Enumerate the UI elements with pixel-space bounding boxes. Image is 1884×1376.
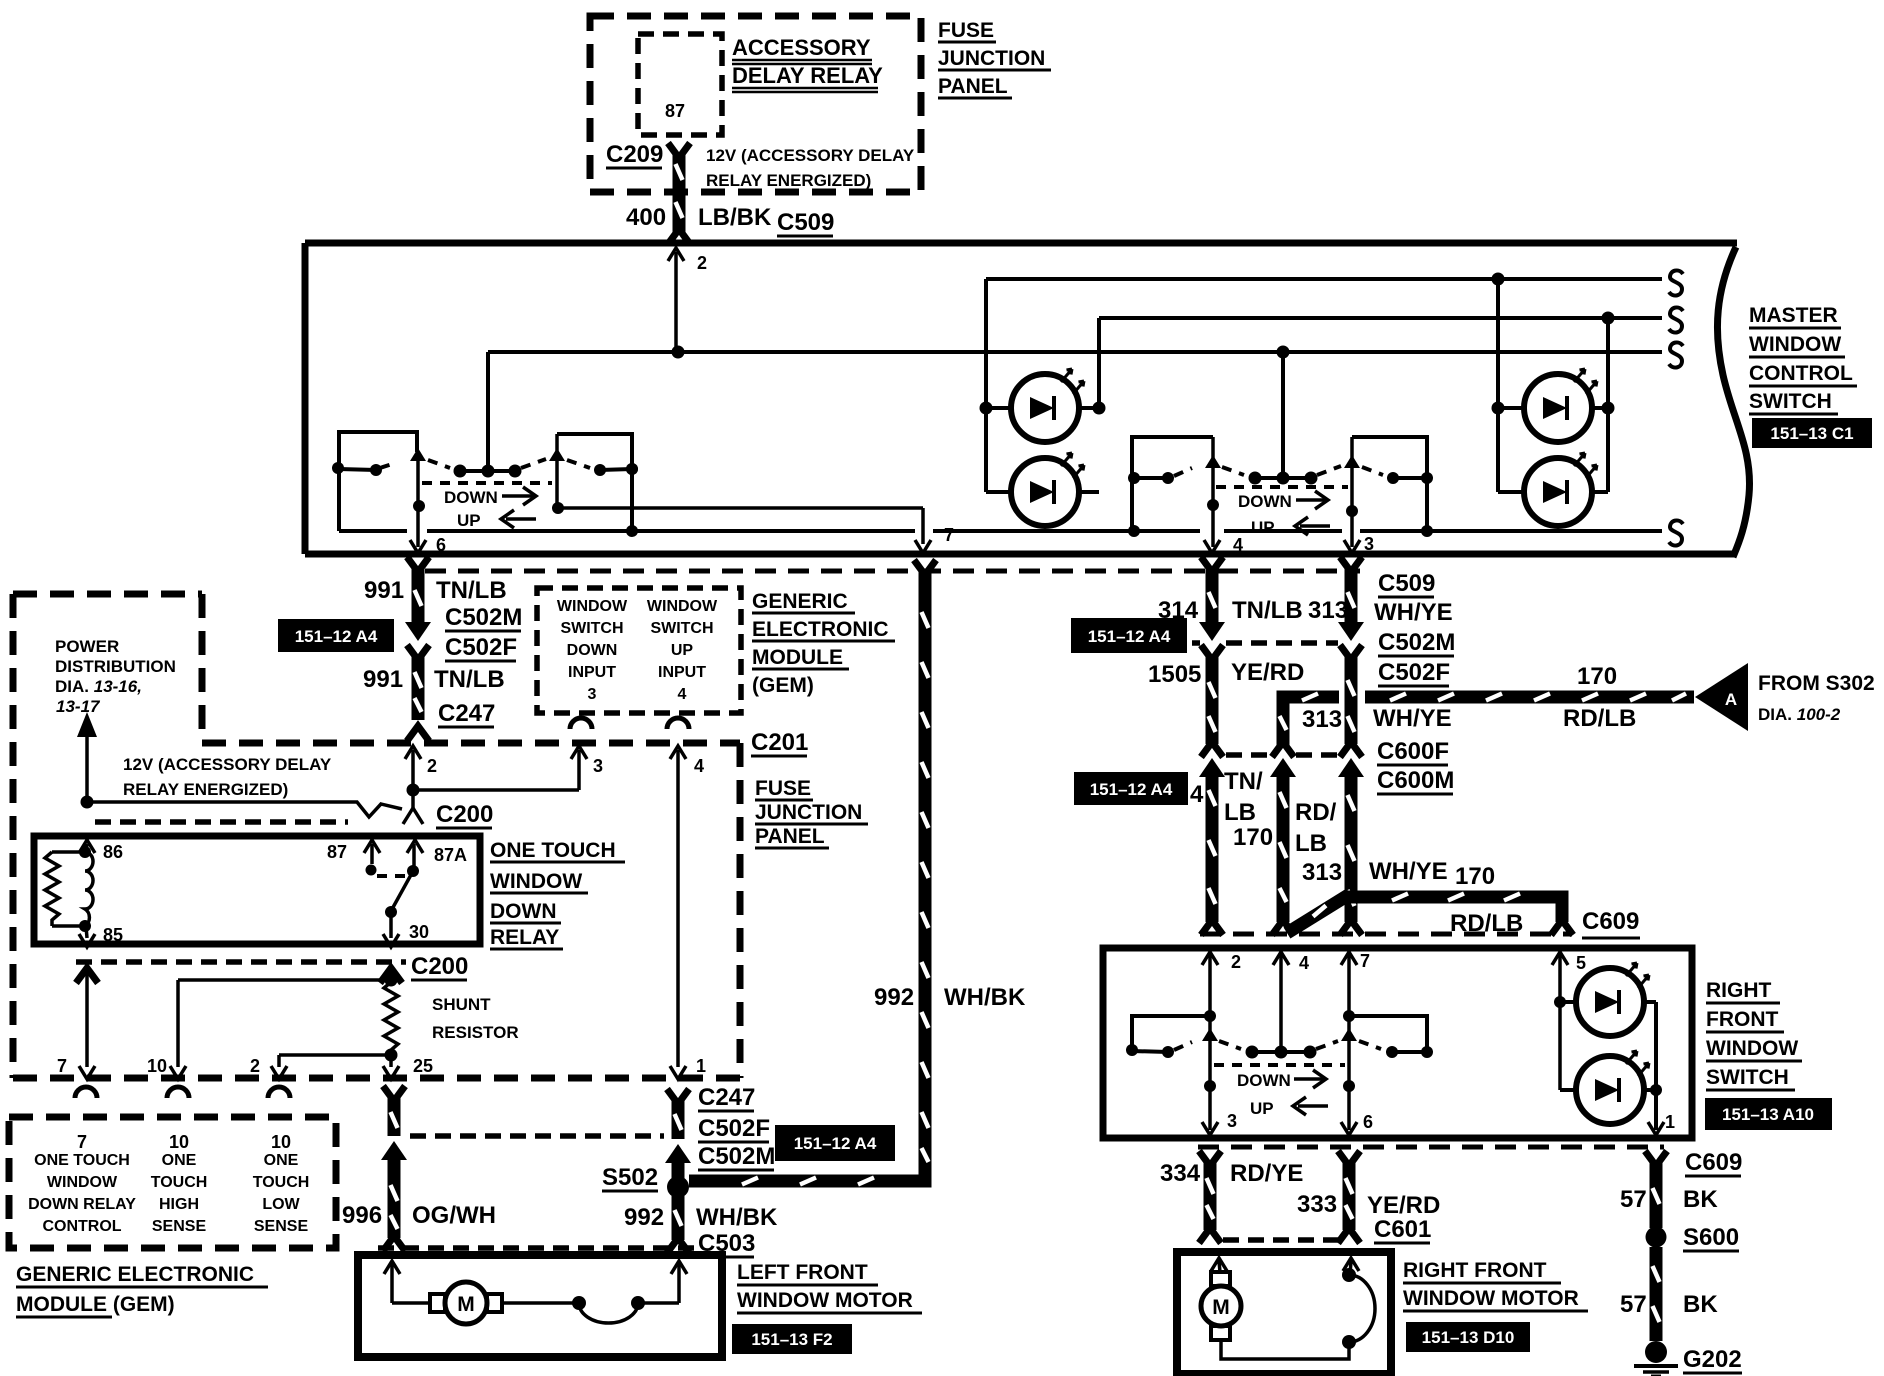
svg-text:LEFT FRONT: LEFT FRONT: [737, 1261, 868, 1284]
svg-text:LOW: LOW: [262, 1196, 300, 1213]
wire fuse panel pin4 long run: [670, 746, 686, 1079]
svg-text:GENERIC: GENERIC: [752, 590, 848, 613]
svg-text:3: 3: [1364, 534, 1374, 554]
svg-text:13-17: 13-17: [56, 697, 101, 716]
svg-text:151–13 D10: 151–13 D10: [1422, 1328, 1515, 1347]
svg-text:WH/BK: WH/BK: [944, 984, 1026, 1011]
svg-text:87: 87: [327, 842, 347, 862]
svg-text:PANEL: PANEL: [938, 75, 1008, 98]
lamp RF upper (master): [1524, 369, 1597, 442]
wire 313 WH/YE (w2 mid): [1340, 645, 1362, 757]
wire fuse panel link pin2 to pin3: [413, 746, 587, 790]
LF rocker right rect: [557, 434, 632, 531]
svg-text:DOWN: DOWN: [490, 900, 557, 923]
svg-text:C609: C609: [1582, 908, 1639, 935]
label DOWN arrow RF (master): [1238, 491, 1328, 511]
svg-text:C509: C509: [1378, 570, 1435, 597]
svg-text:10: 10: [147, 1056, 167, 1076]
svg-text:3: 3: [588, 686, 597, 703]
label RIGHT FRONT WINDOW SWITCH: [1706, 979, 1802, 1090]
svg-text:WINDOW: WINDOW: [1706, 1037, 1798, 1060]
white slash 57 BK upper: [1653, 1188, 1660, 1204]
svg-text:C201: C201: [751, 729, 808, 756]
white slashes on C209/400 stubs: [676, 164, 683, 218]
label 333 YE/RD C601: [1297, 1191, 1440, 1243]
svg-text:SENSE: SENSE: [254, 1218, 309, 1235]
label FUSE JUNCTION PANEL (top): [938, 19, 1051, 98]
svg-text:RIGHT FRONT: RIGHT FRONT: [1403, 1259, 1547, 1282]
svg-text:992: 992: [874, 984, 914, 1011]
svg-text:C502F: C502F: [698, 1115, 770, 1142]
svg-text:SWITCH: SWITCH: [1749, 390, 1832, 413]
label 57 BK upper: [1620, 1186, 1718, 1213]
svg-text:A: A: [1725, 690, 1737, 709]
svg-text:151–13 A10: 151–13 A10: [1722, 1105, 1814, 1124]
svg-text:2: 2: [250, 1056, 260, 1076]
wire 314 TN/LB (w1 upper): [1199, 557, 1225, 641]
connector cups window switch pins 3 4: [570, 718, 689, 729]
svg-text:30: 30: [409, 922, 429, 942]
white slashes wire2: [1348, 592, 1355, 906]
svg-text:87: 87: [665, 101, 685, 121]
svg-text:WH/YE: WH/YE: [1373, 705, 1452, 732]
lamp RF switch upper: [1576, 963, 1649, 1036]
svg-text:7: 7: [57, 1056, 67, 1076]
svg-text:170: 170: [1233, 824, 1273, 851]
svg-text:ONE TOUCH: ONE TOUCH: [490, 839, 616, 862]
svg-text:1: 1: [1665, 1112, 1675, 1132]
white slashes wire 992: [742, 612, 929, 1185]
wire rail 4 (bottom bus): [339, 529, 1662, 533]
white slashes wire 991: [415, 590, 422, 712]
RF switch contacts left: [1126, 1042, 1192, 1058]
svg-text:WH/YE: WH/YE: [1374, 599, 1453, 626]
LF motor pin arrow left: [384, 1261, 431, 1303]
svg-text:WINDOW MOTOR: WINDOW MOTOR: [737, 1289, 913, 1312]
RF motor pin arrow right: [1343, 1258, 1359, 1275]
label RD/LB 313: [1295, 799, 1342, 886]
relay coil ties: [52, 846, 91, 932]
LF rocker mechanical link dashes: [422, 481, 552, 485]
label 12V accessory delay relay energized (top): [706, 146, 915, 190]
svg-text:ONE: ONE: [264, 1152, 299, 1169]
white slash wire 333: [1346, 1178, 1353, 1219]
svg-text:JUNCTION: JUNCTION: [938, 47, 1045, 70]
svg-text:UP: UP: [1251, 518, 1275, 537]
svg-text:170: 170: [1455, 863, 1495, 890]
svg-text:DOWN: DOWN: [1237, 1071, 1291, 1090]
connector line C200 dashed (below relay): [76, 959, 406, 965]
wire 334 RD/YE: [1199, 1151, 1221, 1243]
label WINDOW SWITCH DOWN INPUT 3: [557, 598, 628, 703]
lamp RF switch lower: [1576, 1051, 1649, 1124]
wire 12V accessory delay feed: [87, 802, 402, 817]
svg-text:OG/WH: OG/WH: [412, 1202, 496, 1229]
svg-text:TN/: TN/: [1224, 768, 1263, 795]
svg-text:RELAY ENERGIZED): RELAY ENERGIZED): [706, 171, 871, 190]
label FROM S302 DIA 100-2: [1758, 672, 1875, 724]
white slash wire 334: [1207, 1178, 1214, 1219]
connector line C502 dashed (right): [1192, 640, 1338, 646]
svg-text:3: 3: [1227, 1111, 1237, 1131]
svg-text:C600F: C600F: [1377, 738, 1449, 765]
svg-text:YE/RD: YE/RD: [1367, 1192, 1440, 1219]
wire 992 WH/BK (master pin 7 to S502): [689, 560, 936, 1181]
wire tap to GEM pin 2: [271, 1055, 391, 1079]
power distribution arrow: [77, 712, 97, 802]
label GEM pin 10 one touch low sense: [253, 1132, 310, 1235]
labels RF switch pins bottom: [1227, 1111, 1675, 1132]
RF switch pin 5 lamp feed: [1552, 952, 1656, 1090]
wire RD/LB 313 (w3 lower): [1270, 742, 1296, 935]
motor M right front: [1201, 1272, 1241, 1340]
svg-text:DOWN: DOWN: [567, 642, 618, 659]
label 991 TN/LB lower: [363, 666, 505, 693]
wire rail A (lamp feed top): [986, 277, 1662, 281]
tag 151-13 A10: [1705, 1098, 1832, 1130]
svg-text:12V (ACCESSORY DELAY: 12V (ACCESSORY DELAY: [706, 146, 915, 165]
svg-text:151–12 A4: 151–12 A4: [1088, 627, 1171, 646]
wire RF motor arc: [1342, 1268, 1375, 1349]
connector line C609 dashed (pin 5): [1200, 932, 1572, 937]
RF rocker (master) pivot lever pin 4: [1204, 437, 1221, 553]
svg-text:SWITCH: SWITCH: [560, 620, 623, 637]
wire 996 OG/WH: [381, 1086, 407, 1251]
node rail3 / RF rocker tap: [1277, 346, 1290, 359]
generic electronic module (GEM) upper dashed box: [13, 594, 202, 1078]
label 313 WH/YE (mid): [1302, 705, 1452, 733]
svg-text:FUSE: FUSE: [755, 777, 811, 800]
label ACCESSORY DELAY RELAY: [732, 35, 883, 92]
svg-text:TN/LB: TN/LB: [1232, 597, 1303, 624]
label C200 (12V line): [436, 801, 493, 828]
svg-text:DOWN: DOWN: [444, 488, 498, 507]
svg-text:PANEL: PANEL: [755, 825, 825, 848]
label 996 OG/WH: [342, 1202, 496, 1229]
wire LF motor to brush arc: [502, 1296, 679, 1323]
connector line C509 dashed below master switch: [425, 569, 1360, 574]
svg-text:5: 5: [1576, 953, 1586, 973]
svg-text:WINDOW: WINDOW: [47, 1174, 118, 1191]
svg-text:SWITCH: SWITCH: [1706, 1066, 1789, 1089]
svg-text:57: 57: [1620, 1291, 1647, 1318]
RF switch center contacts: [1219, 1041, 1338, 1059]
svg-text:RD/YE: RD/YE: [1230, 1160, 1303, 1187]
RF switch pin 4 wire: [1273, 952, 1289, 1050]
svg-text:DELAY RELAY: DELAY RELAY: [732, 63, 883, 88]
svg-text:400: 400: [626, 204, 666, 231]
label POWER DISTRIBUTION: [55, 637, 176, 716]
label SHUNT RESISTOR: [432, 995, 519, 1042]
svg-text:WINDOW: WINDOW: [557, 598, 628, 615]
wire continuation S symbols: [1669, 270, 1683, 545]
svg-text:57: 57: [1620, 1186, 1647, 1213]
node 12V junction: [81, 796, 94, 809]
svg-text:151–13 C1: 151–13 C1: [1770, 424, 1853, 443]
svg-text:ELECTRONIC: ELECTRONIC: [752, 618, 889, 641]
svg-text:2: 2: [427, 756, 437, 776]
wire pin2 from C509 into master switch: [668, 248, 684, 352]
label WH/YE 170 (lower): [1369, 858, 1495, 890]
wire 992 WH/BK to C503: [667, 1196, 689, 1253]
svg-text:C600M: C600M: [1377, 767, 1454, 794]
label 334 RD/YE: [1160, 1160, 1303, 1187]
label G202: [1683, 1346, 1742, 1373]
svg-text:RD/LB: RD/LB: [1563, 705, 1636, 732]
svg-text:WH/BK: WH/BK: [696, 1204, 778, 1231]
svg-text:C502M: C502M: [445, 604, 522, 631]
svg-text:CONTROL: CONTROL: [42, 1218, 121, 1235]
svg-text:151–12 A4: 151–12 A4: [1090, 780, 1173, 799]
svg-text:WINDOW MOTOR: WINDOW MOTOR: [1403, 1287, 1579, 1310]
wire pin85 to GEM pin 7: [76, 968, 98, 1079]
svg-text:85: 85: [103, 925, 123, 945]
fuse junction panel dashed box: [202, 743, 740, 1078]
tag 151-13 C1: [1752, 418, 1872, 448]
wire C209 connector stub (relay pin 87): [668, 143, 690, 192]
svg-text:TOUCH: TOUCH: [253, 1174, 310, 1191]
label 314 TN/LB 313: [1158, 597, 1348, 624]
svg-text:C200: C200: [436, 801, 493, 828]
wire 400 LB/BK stub to C509: [668, 192, 690, 244]
label GENERIC ELECTRONIC MODULE (GEM) bottom: [16, 1263, 268, 1317]
wire rail 3 (switch common): [488, 352, 1662, 476]
white slashes wire3: [1280, 792, 1287, 902]
node rail3 junction pin2: [672, 346, 685, 359]
node S502 splice: [667, 1176, 689, 1198]
label GEM pin 7 one touch window down relay control: [28, 1132, 136, 1235]
svg-text:C502F: C502F: [1378, 659, 1450, 686]
tag 151-12 A4 (right upper): [1071, 618, 1187, 653]
svg-text:1: 1: [696, 1056, 706, 1076]
svg-text:RELAY: RELAY: [490, 926, 559, 949]
svg-text:WINDOW: WINDOW: [647, 598, 718, 615]
svg-text:C200: C200: [411, 953, 468, 980]
svg-text:MASTER: MASTER: [1749, 304, 1838, 327]
svg-text:C247: C247: [438, 700, 495, 727]
motor M left front: [430, 1282, 502, 1324]
tag 151-12 A4 (middle): [775, 1125, 895, 1161]
svg-text:C209: C209: [606, 141, 663, 168]
relay pin 86 arrow: [79, 840, 95, 853]
svg-text:ONE: ONE: [162, 1152, 197, 1169]
svg-text:M: M: [457, 1293, 475, 1316]
wire WH/YE 170 (w2 lower): [1338, 758, 1364, 935]
node LF right rect rail4: [626, 463, 638, 537]
wire LF down output to pin 7: [558, 508, 931, 553]
right front window motor box: [1177, 1252, 1391, 1374]
svg-text:GENERIC ELECTRONIC: GENERIC ELECTRONIC: [16, 1263, 254, 1286]
wire S502 drop (C247 pin1 to S502): [665, 1089, 691, 1178]
relay coil resistor: [45, 852, 59, 926]
svg-text:S502: S502: [602, 1164, 658, 1191]
LF motor pin arrow right: [671, 1261, 687, 1303]
svg-text:FROM S302: FROM S302: [1758, 672, 1875, 695]
connector line C601 dashed lower: [1223, 1237, 1344, 1243]
svg-text:BK: BK: [1683, 1291, 1718, 1318]
RF rocker (master) right rect: [1352, 437, 1427, 531]
svg-text:RD/LB: RD/LB: [1450, 910, 1523, 937]
RF rocker mechanical link dashes: [1216, 485, 1348, 489]
wire 170 RD/LB to pin 5: [1343, 897, 1573, 935]
svg-text:M: M: [1212, 1296, 1230, 1319]
RF switch left rect: [1132, 1016, 1210, 1050]
svg-text:MODULE (GEM): MODULE (GEM): [16, 1293, 175, 1316]
label RIGHT FRONT WINDOW MOTOR: [1403, 1259, 1588, 1311]
label S600: [1683, 1224, 1739, 1251]
svg-text:MODULE: MODULE: [752, 646, 843, 669]
label C600F C600M: [1377, 738, 1454, 794]
svg-text:12V (ACCESSORY DELAY: 12V (ACCESSORY DELAY: [123, 755, 332, 774]
accessory delay relay outer dashed box (fuse junction panel): [590, 16, 921, 192]
label UP arrow LF: [457, 510, 536, 530]
svg-text:DISTRIBUTION: DISTRIBUTION: [55, 657, 176, 676]
svg-text:G202: G202: [1683, 1346, 1742, 1373]
label MASTER WINDOW CONTROL SWITCH: [1749, 304, 1857, 414]
wire 991 TN/LB (master pin 6 to C247): [405, 557, 431, 741]
svg-text:313: 313: [1302, 859, 1342, 886]
svg-text:86: 86: [103, 842, 123, 862]
svg-text:UP: UP: [671, 642, 694, 659]
node RF right rect rail4: [1421, 525, 1433, 537]
white slashes 57 BK lower: [1653, 1266, 1660, 1322]
svg-text:6: 6: [1363, 1112, 1373, 1132]
svg-text:DIA. 100-2: DIA. 100-2: [1758, 705, 1841, 724]
connector cups GEM pins 7 10 2: [75, 1087, 290, 1098]
svg-text:25: 25: [413, 1056, 433, 1076]
svg-text:4: 4: [694, 756, 704, 776]
svg-text:C502M: C502M: [1378, 629, 1455, 656]
accessory delay relay inner dashed box: [638, 34, 722, 135]
svg-text:WINDOW: WINDOW: [490, 870, 582, 893]
label 400 LB/BK C509: [626, 204, 834, 236]
label 170 RD/LB (to A): [1563, 663, 1636, 732]
lamp RF lower (master): [1524, 453, 1597, 526]
left front window motor box: [358, 1255, 722, 1357]
generic electronic module (GEM) lower dashed box: [9, 1117, 336, 1248]
label S502: [602, 1164, 658, 1191]
svg-text:151–13 F2: 151–13 F2: [751, 1330, 832, 1349]
svg-text:992: 992: [624, 1204, 664, 1231]
connector line C247/C502 dashed (mid left): [410, 1133, 664, 1139]
label DOWN arrow LF: [444, 487, 536, 507]
label UP arrow RF (master): [1251, 517, 1330, 537]
one touch window down relay box: [34, 836, 480, 944]
triangle A from S302: [1695, 663, 1748, 731]
svg-text:SHUNT: SHUNT: [432, 995, 491, 1014]
svg-text:INPUT: INPUT: [658, 664, 706, 681]
label 12V accessory delay relay energized (left): [123, 755, 332, 799]
connector line C200 dashed (12V wire): [95, 819, 348, 825]
tag 151-13 D10: [1406, 1322, 1530, 1352]
svg-text:C503: C503: [698, 1230, 755, 1257]
label C209: [606, 141, 663, 168]
right front window switch box: [1103, 948, 1692, 1138]
svg-text:2: 2: [697, 253, 707, 273]
node shunt bottom: [385, 1049, 398, 1062]
label DOWN arrow RF switch: [1237, 1070, 1326, 1090]
relay pin 85 arrow: [79, 926, 95, 947]
shunt resistor zigzag: [384, 982, 398, 1056]
svg-text:YE/RD: YE/RD: [1231, 659, 1304, 686]
label C502M C502F (left): [445, 604, 522, 661]
svg-text:C502F: C502F: [445, 634, 517, 661]
white slashes wire 170: [1280, 694, 1687, 731]
svg-text:7: 7: [77, 1132, 87, 1152]
RF rocker (master) contacts left: [1128, 468, 1192, 537]
svg-text:RELAY ENERGIZED): RELAY ENERGIZED): [123, 780, 288, 799]
white slashes wire 170b: [1313, 894, 1520, 917]
svg-text:10: 10: [169, 1132, 189, 1152]
wire 170 RD/LB horizontal from A: [1283, 697, 1694, 745]
svg-text:4: 4: [678, 686, 687, 703]
svg-text:ACCESSORY: ACCESSORY: [732, 35, 871, 60]
svg-text:LB: LB: [1224, 799, 1256, 826]
label C509 WH/YE C502M C502F (right): [1374, 570, 1455, 686]
svg-text:S600: S600: [1683, 1224, 1739, 1251]
window switch input dashed box: [537, 588, 741, 713]
wire 57 BK upper: [1645, 1151, 1667, 1228]
relay pin 87A stub: [407, 844, 419, 877]
connector line C503 dashed: [378, 1245, 700, 1251]
svg-text:ONE TOUCH: ONE TOUCH: [34, 1152, 130, 1169]
svg-text:WINDOW: WINDOW: [1749, 333, 1841, 356]
LF rocker right contacts: [567, 460, 638, 476]
node pin2/pin3 junction: [407, 784, 420, 797]
wire TN/LB 170 (w1 lower): [1199, 758, 1225, 935]
relay coil inductor: [85, 852, 93, 926]
LF rocker contacts left: [332, 462, 395, 476]
node S600 splice: [1646, 1227, 1667, 1248]
label C201: [751, 729, 808, 756]
svg-text:UP: UP: [457, 511, 481, 530]
svg-text:7: 7: [1360, 951, 1370, 971]
RF rocker (master) left rect: [1132, 437, 1213, 531]
svg-text:DIA. 13-16,: DIA. 13-16,: [55, 677, 142, 696]
connector line C600 dashed: [1226, 752, 1338, 758]
label LEFT FRONT WINDOW MOTOR: [737, 1261, 922, 1313]
white slashes S502 wires: [675, 1114, 682, 1226]
svg-text:C601: C601: [1374, 1216, 1431, 1243]
labels RF switch pins top: [1231, 951, 1586, 973]
svg-text:1505: 1505: [1148, 661, 1201, 688]
svg-text:C502M: C502M: [698, 1143, 775, 1170]
label 1505 YE/RD: [1148, 659, 1304, 688]
svg-text:(GEM): (GEM): [752, 674, 814, 697]
svg-text:JUNCTION: JUNCTION: [755, 801, 862, 824]
RF switch right rect: [1349, 1016, 1427, 1052]
RF motor pin arrow left: [1211, 1258, 1227, 1272]
LF rocker left rect: [339, 432, 417, 531]
label C247 (left): [438, 700, 495, 727]
svg-text:991: 991: [363, 666, 403, 693]
relay contact mechanical dashes: [377, 874, 405, 878]
wire diagonal RD/LB jog: [1287, 894, 1350, 933]
white slashes wire1: [1209, 592, 1216, 904]
svg-text:C247: C247: [698, 1084, 755, 1111]
wire relay pin 87A feed (C200): [403, 746, 423, 853]
label GEM pin 10 one touch high sense: [151, 1132, 208, 1235]
wire shunt to C201 pin 25: [383, 1055, 399, 1079]
label 57 BK lower: [1620, 1291, 1718, 1318]
svg-text:RESISTOR: RESISTOR: [432, 1023, 519, 1042]
svg-text:TN/LB: TN/LB: [434, 666, 505, 693]
connector line C201 dashed: [13, 1075, 744, 1082]
RF switch pin 2 lever: [1202, 952, 1218, 1135]
svg-text:333: 333: [1297, 1191, 1337, 1218]
label C609 (right column): [1685, 1149, 1742, 1176]
label ONE TOUCH WINDOW DOWN RELAY: [490, 839, 625, 949]
